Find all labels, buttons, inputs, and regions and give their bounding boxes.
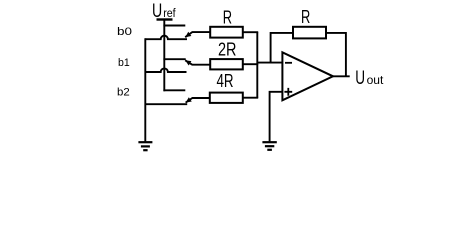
- wire b0 lower contact with hop over Uref bus: [145, 36, 187, 40]
- ground symbol right: [262, 142, 276, 150]
- svg-text:b2: b2: [117, 87, 130, 99]
- ground symbol left: [138, 142, 152, 150]
- op-amp minus sign: [285, 62, 292, 64]
- wire R4 right lead and drop to output node: [327, 33, 346, 76]
- resistor R4 feedback body: [293, 27, 326, 39]
- wire feedback left lead and tap to inverting node: [271, 33, 293, 63]
- svg-text:b1: b1: [118, 57, 130, 69]
- wire b2 upper contact stub: [163, 89, 185, 91]
- op-amp U1 triangle: [282, 52, 333, 100]
- svg-text:out: out: [367, 75, 385, 87]
- net label Uref: [152, 1, 176, 22]
- svg-text:R: R: [223, 6, 232, 27]
- svg-text:b0: b0: [117, 26, 132, 38]
- svg-text:U: U: [355, 68, 365, 89]
- svg-text:ref: ref: [163, 8, 176, 20]
- wire b1 upper contact stub: [163, 58, 185, 60]
- svg-text:2R: 2R: [218, 39, 237, 60]
- wire R3 right lead: [243, 97, 258, 99]
- wire R1 right lead: [243, 31, 258, 33]
- wire non-inverting input: [270, 92, 283, 142]
- resistor R2 body: [210, 59, 243, 69]
- svg-text:4R: 4R: [217, 70, 234, 91]
- wire Uref bus vertical: [163, 20, 165, 92]
- wire b1 lower contact with hop over Uref bus: [145, 68, 186, 72]
- supply Uref terminal bar: [157, 18, 173, 20]
- svg-text:U: U: [152, 1, 162, 22]
- wire R2 right lead: [243, 63, 258, 65]
- resistor R1 body: [210, 27, 243, 38]
- wire b2 lower contact: [145, 103, 187, 105]
- switch S1 wiper with arrowhead: [185, 60, 210, 64]
- wire summing bus: [256, 32, 258, 98]
- resistor R3 body: [210, 93, 243, 103]
- wire output: [333, 75, 350, 77]
- net label Uout: [355, 68, 384, 89]
- wire inverting input: [257, 62, 282, 64]
- wire ground bus vertical: [144, 38, 146, 141]
- switch S0 wiper with arrowhead: [185, 32, 210, 37]
- switch S2 wiper with arrowhead: [186, 98, 211, 103]
- svg-text:R: R: [301, 6, 310, 27]
- op-amp plus sign: [284, 88, 292, 96]
- wire b0 upper contact stub: [163, 25, 185, 27]
